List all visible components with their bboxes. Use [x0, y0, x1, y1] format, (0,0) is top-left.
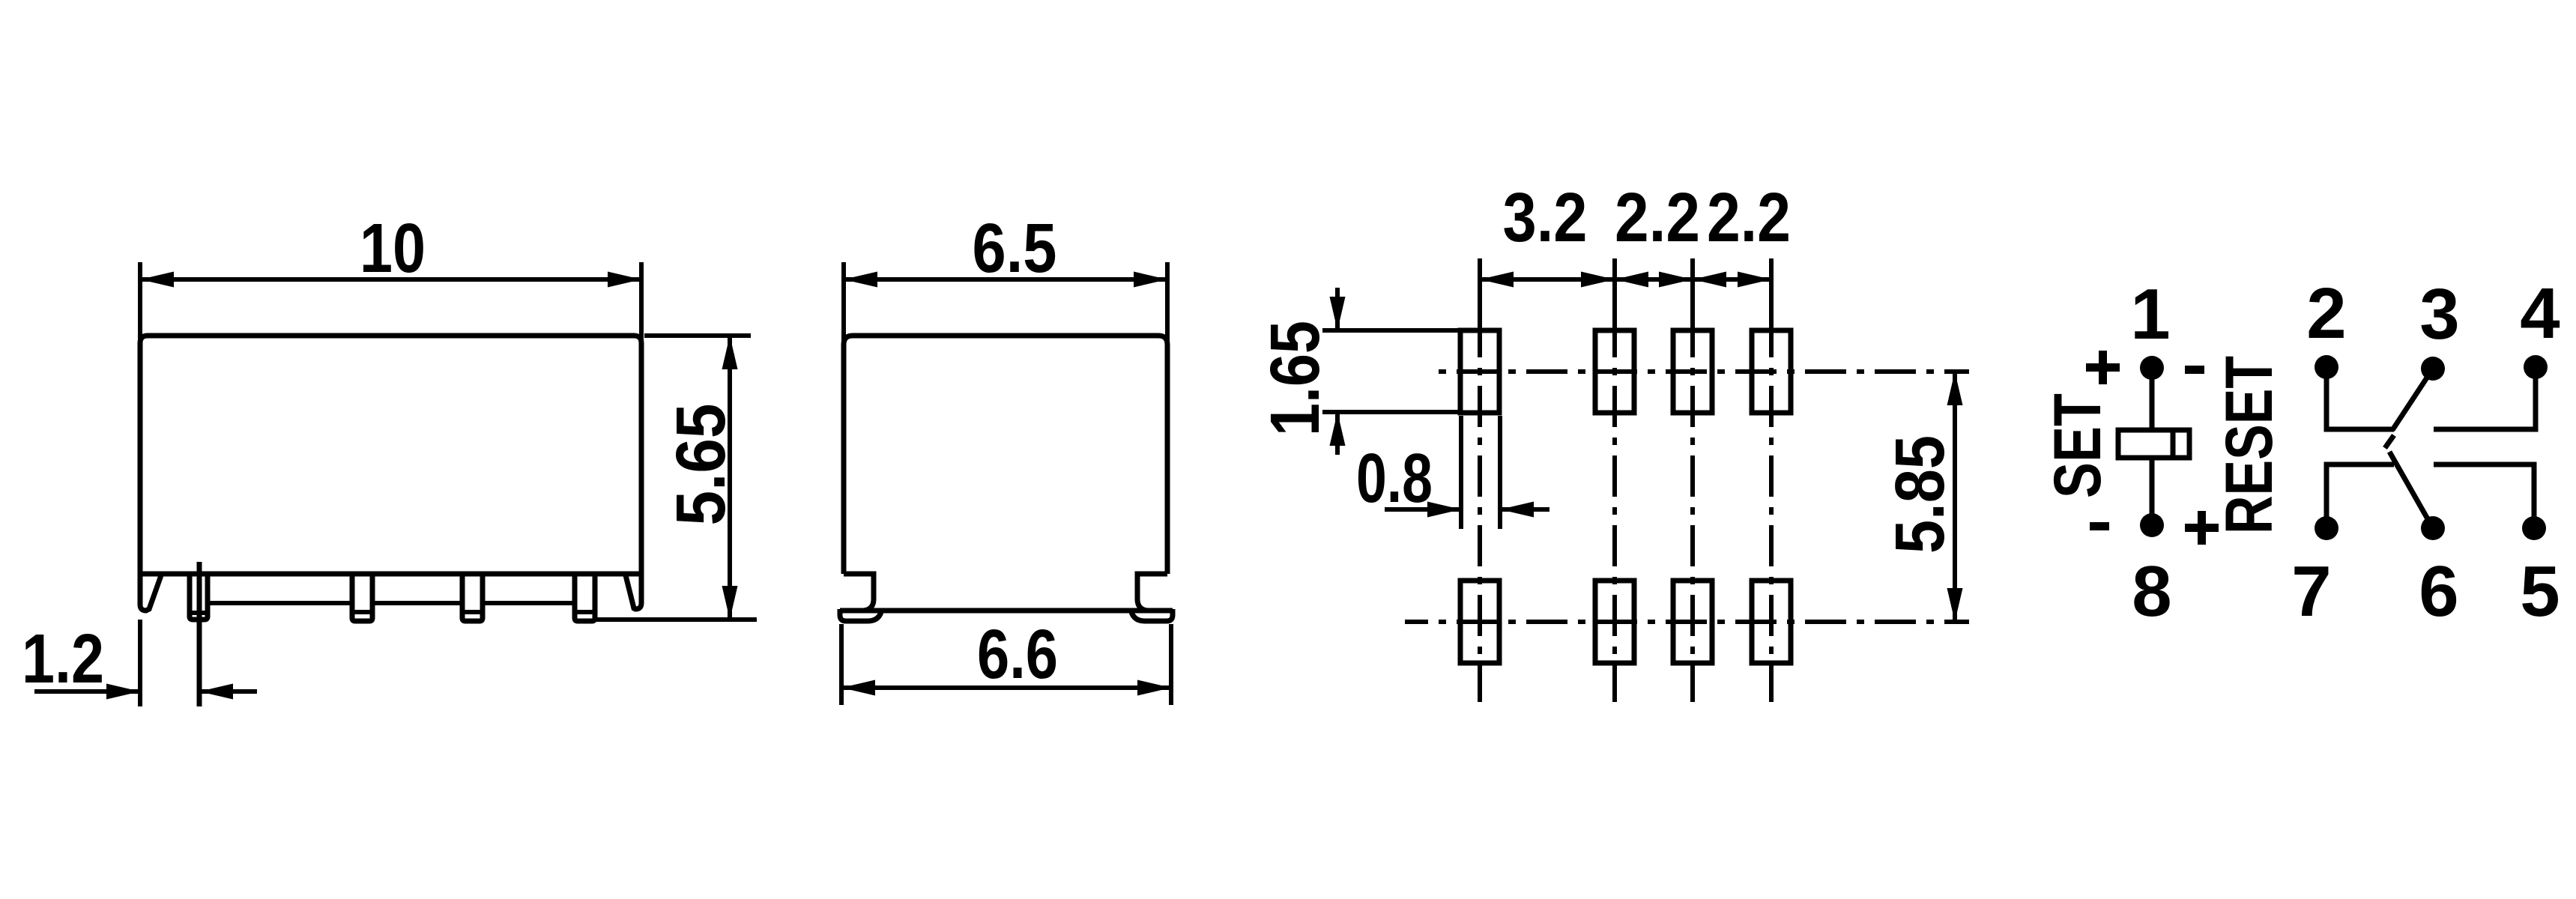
- base plate left foot: [840, 609, 881, 621]
- dimension 6.6 line: [841, 685, 1171, 690]
- dimension 6.6 arrow left: [841, 680, 875, 696]
- dimension 10 extension line left: [138, 262, 142, 347]
- dimension 0.8 line left tail: [1385, 507, 1461, 512]
- node 2 terminal dot: [2315, 355, 2338, 379]
- svg-text:SET: SET: [2040, 393, 2114, 498]
- svg-text:2.2: 2.2: [1707, 178, 1791, 256]
- pitch dimension line: [1480, 277, 1771, 282]
- node 4 terminal dot: [2524, 355, 2548, 379]
- dimension 1.2 extension line left: [138, 620, 142, 706]
- pitch dim extension tick col 1: [1478, 258, 1482, 339]
- bottom row pad 8: [1460, 581, 1499, 663]
- dimension 3.2 arrow left: [1480, 272, 1514, 288]
- dimension 2.2b arrow right: [1738, 272, 1771, 288]
- dimension 1.65 extension line top: [1322, 328, 1461, 333]
- dimension 0.8 arrow left (outside): [1427, 502, 1461, 518]
- dimension 0.8 line right tail: [1500, 507, 1549, 512]
- coil K1 body: [2118, 430, 2189, 458]
- plus sign at node 1: [2086, 351, 2120, 384]
- tab 2 inner line: [462, 610, 483, 614]
- dimension 5.85 arrow top: [1947, 372, 1963, 405]
- pitch dim extension tick col 4: [1769, 258, 1774, 339]
- bottom row horizontal centerline: [1405, 620, 1969, 624]
- armature upper tail segment: [2385, 435, 2394, 448]
- body bottom edge: [140, 572, 641, 577]
- svg-text:RESET: RESET: [2211, 356, 2286, 534]
- svg-text:10: 10: [360, 209, 426, 287]
- dimension 10 arrow right: [608, 272, 641, 288]
- dimension 6.6 extension line left: [839, 624, 844, 705]
- bottom tab 2: [462, 574, 483, 621]
- case recessed bottom line segment 3: [483, 601, 575, 605]
- dimension 1.65 arrow bottom (outside): [1330, 412, 1346, 446]
- dimension 2.2b arrow left: [1693, 272, 1726, 288]
- wire coil to node 8: [2150, 458, 2155, 525]
- dimension 6.5 line: [844, 277, 1167, 282]
- minus sign at node 1: [2185, 366, 2204, 374]
- svg-text:3: 3: [2419, 274, 2459, 354]
- minus sign at node 8: [2090, 522, 2109, 530]
- bottom row pad 5: [1752, 581, 1791, 663]
- svg-text:5.85: 5.85: [1881, 435, 1959, 554]
- front right wall step: [1137, 574, 1167, 611]
- dimension 5.65 line: [728, 336, 732, 620]
- column 4 centerline: [1769, 339, 1774, 702]
- left case foot: [140, 574, 161, 611]
- plus sign at node 8: [2185, 511, 2219, 545]
- dimension 1.65 arrow top (outside): [1330, 297, 1346, 330]
- svg-text:0.8: 0.8: [1356, 439, 1433, 517]
- svg-text:8: 8: [2132, 551, 2171, 632]
- dimension 10 extension line right: [639, 262, 644, 347]
- base plate top line: [840, 608, 1173, 614]
- dimension 1.2 line left tail: [34, 689, 140, 694]
- svg-text:5.65: 5.65: [662, 404, 740, 526]
- column 2 centerline: [1612, 339, 1617, 702]
- dimension 0.8 arrow right (outside): [1500, 502, 1534, 518]
- dimension 1.65 line top segment: [1335, 288, 1340, 330]
- dimension 5.85 line: [1953, 372, 1957, 622]
- relay body side view outline: [140, 336, 641, 574]
- svg-text:1: 1: [2130, 274, 2170, 354]
- dimension 1.2 arrow left (outside): [106, 684, 140, 700]
- svg-text:4: 4: [2520, 273, 2560, 354]
- pitch dim extension tick col 3: [1690, 258, 1695, 339]
- dimension 5.65 arrow bottom: [722, 586, 738, 620]
- dimension 6.6 extension line right: [1169, 624, 1173, 705]
- dimension 6.5 arrow left: [844, 272, 877, 288]
- dimension 1.2 line right tail: [199, 689, 257, 694]
- dimension 3.2 arrow right: [1581, 272, 1615, 288]
- bottom row pad 7: [1595, 581, 1634, 663]
- dimension 1.65 line bottom segment: [1335, 412, 1340, 455]
- pin 1 lead / extension line: [197, 562, 202, 706]
- node 3 terminal dot: [2421, 357, 2445, 381]
- tab 1 inner line: [352, 610, 372, 614]
- svg-text:5: 5: [2520, 551, 2560, 632]
- svg-text:2.2: 2.2: [1615, 178, 1700, 256]
- armature lower (node 6 moving contact): [2389, 452, 2433, 528]
- column 3 centerline: [1690, 339, 1695, 702]
- svg-text:6.6: 6.6: [977, 615, 1058, 693]
- svg-text:6: 6: [2419, 551, 2458, 632]
- dimension 5.65 arrow top: [722, 336, 738, 369]
- svg-text:3.2: 3.2: [1503, 178, 1588, 256]
- bottom row pad 6: [1673, 581, 1712, 663]
- dimension 10 line: [140, 277, 641, 282]
- node 5 terminal dot: [2522, 516, 2546, 540]
- case recessed bottom line segment 1: [208, 601, 352, 605]
- dimension 6.6 arrow right: [1137, 680, 1171, 696]
- tab 3 inner line: [575, 610, 595, 614]
- pin 1 shroud: [190, 574, 208, 620]
- bottom tab 3: [575, 574, 595, 621]
- top row pad 2: [1595, 330, 1634, 413]
- bottom tab 1: [352, 574, 372, 621]
- top row horizontal centerline: [1437, 369, 1969, 374]
- top row pad 1: [1460, 330, 1499, 413]
- node 1 terminal dot: [2140, 356, 2164, 380]
- dimension 2.2a arrow left: [1615, 272, 1648, 288]
- dimension 6.5 arrow right: [1134, 272, 1167, 288]
- wire node 1 to coil: [2150, 368, 2155, 430]
- armature upper (node 3 moving contact): [2392, 369, 2433, 430]
- dimension 1.65 extension line bottom: [1322, 410, 1461, 414]
- svg-text:2: 2: [2306, 273, 2346, 354]
- pin shroud inner line: [190, 611, 208, 615]
- dimension 2.2a arrow right: [1659, 272, 1693, 288]
- svg-text:1.65: 1.65: [1256, 321, 1334, 436]
- coil divider line: [2171, 430, 2176, 458]
- top row pad 4: [1752, 330, 1791, 413]
- dimension 1.2 arrow right (outside): [199, 684, 233, 700]
- wire node 7 to pole: [2326, 464, 2394, 528]
- svg-text:1.2: 1.2: [22, 620, 104, 697]
- node 7 terminal dot: [2315, 516, 2338, 540]
- svg-text:6.5: 6.5: [973, 209, 1057, 287]
- top row pad 3: [1673, 330, 1712, 413]
- dimension 10 arrow left: [140, 272, 174, 288]
- dimension 5.65 extension line bottom: [595, 617, 757, 622]
- dimension 0.8 extension line right: [1498, 416, 1502, 529]
- node 8 terminal dot: [2140, 513, 2164, 537]
- right case foot: [626, 574, 641, 609]
- wire node 2 to pole: [2326, 367, 2394, 429]
- dimension 6.5 extension line right: [1165, 262, 1170, 345]
- dimension 5.85 arrow bottom: [1947, 588, 1963, 622]
- node 6 terminal dot: [2421, 516, 2445, 540]
- front left wall step: [844, 574, 874, 611]
- wire node 4 to stationary contact: [2434, 367, 2536, 429]
- svg-text:7: 7: [2291, 551, 2331, 632]
- dimension 6.5 extension line left: [841, 262, 846, 345]
- case recessed bottom line segment 2: [372, 601, 462, 605]
- base plate right foot: [1131, 609, 1173, 621]
- dimension 5.65 extension line top: [644, 333, 751, 338]
- column 1 centerline: [1478, 339, 1482, 702]
- wire node 5 to stationary contact: [2434, 464, 2534, 528]
- pitch dim extension tick col 2: [1612, 258, 1617, 339]
- dimension 0.8 extension line left: [1459, 416, 1463, 529]
- relay body front view outline: [844, 336, 1167, 574]
